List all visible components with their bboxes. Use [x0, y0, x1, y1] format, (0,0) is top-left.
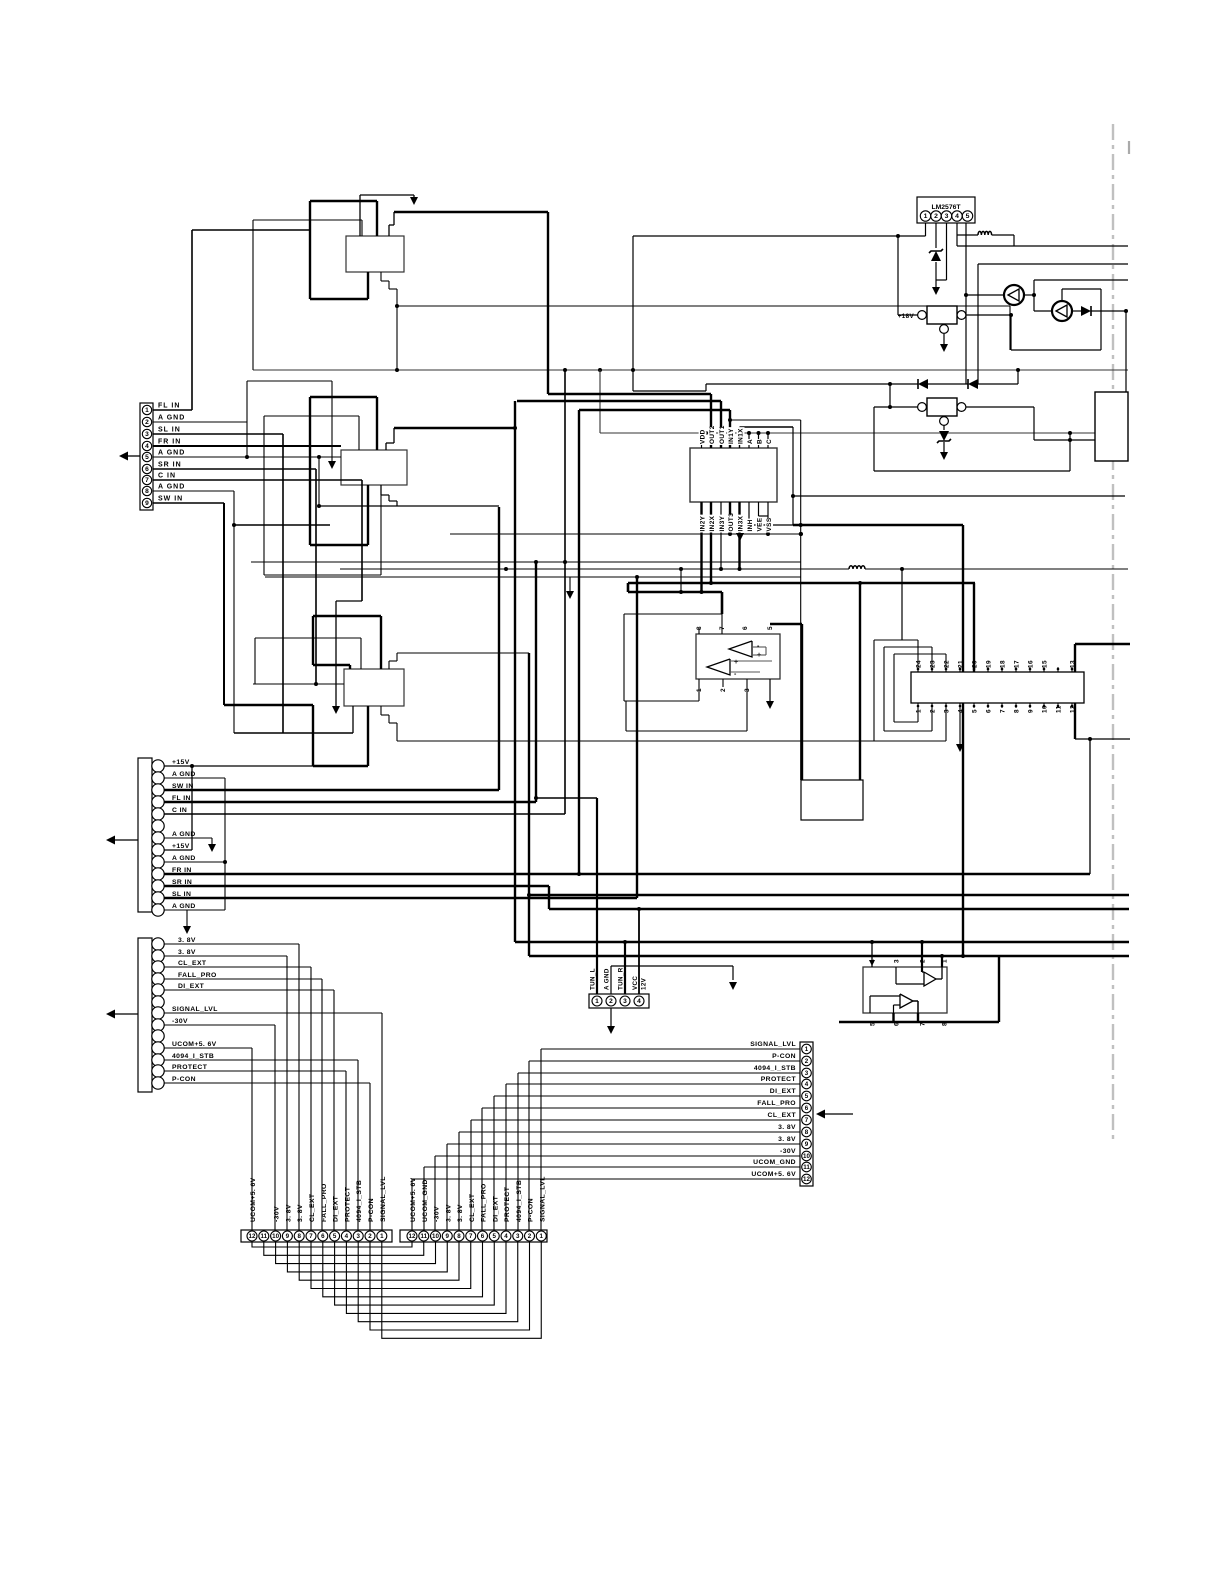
junction — [888, 382, 892, 386]
wire IC4 pin1 up — [941, 956, 943, 967]
svg-text:2: 2 — [368, 1233, 372, 1240]
wire steps bottom A2 — [380, 485, 382, 495]
svg-text:P-CON: P-CON — [172, 1076, 196, 1083]
wire CN1 A GND 5 — [153, 456, 341, 458]
wire C riser — [564, 370, 566, 814]
wire net y562 — [251, 561, 801, 563]
LM2576T pin 5 — [962, 211, 972, 221]
svg-text:SR IN: SR IN — [158, 462, 182, 469]
wire A1 out bold — [394, 211, 548, 213]
wire CN6-CN7 pin 6 — [323, 1242, 483, 1297]
svg-text:21: 21 — [958, 660, 965, 668]
svg-text:10: 10 — [272, 1233, 279, 1240]
IC1 pin IN1X label — [737, 427, 745, 445]
svg-text:FL IN: FL IN — [158, 403, 180, 410]
wire SL riser — [636, 577, 638, 898]
svg-text:5: 5 — [966, 213, 970, 220]
svg-text:12: 12 — [409, 1233, 416, 1240]
IC1 pin C label — [765, 439, 773, 445]
svg-text:+18V: +18V — [898, 313, 915, 320]
CN1 pin 4 — [142, 441, 151, 450]
svg-text:FALL_PRO: FALL_PRO — [321, 1183, 328, 1222]
IC2 internal wires — [752, 646, 766, 648]
wire CN1 SW IN — [153, 502, 224, 504]
CN7 pin 4 — [501, 1231, 511, 1241]
svg-text:8: 8 — [457, 1233, 461, 1240]
arrow down A3 — [332, 706, 340, 714]
CN3 pin 12 — [152, 1065, 164, 1077]
svg-text:8: 8 — [1014, 709, 1021, 713]
ground arrow CN2 — [186, 910, 188, 928]
CN2 pin 12 — [152, 892, 164, 904]
wire CN2 FL IN — [164, 801, 536, 803]
wire FL into A1 — [192, 229, 310, 231]
IC1 pin IN1Y label — [727, 427, 735, 445]
svg-text:8: 8 — [297, 1233, 301, 1240]
wire FL riser — [535, 562, 537, 802]
CN7 pin 10 — [431, 1231, 441, 1241]
wire bold stub A2 — [234, 524, 330, 526]
wire CN2 A GND rail — [164, 777, 225, 779]
IC3 pin 17 stub — [1015, 667, 1017, 672]
svg-text:LM2576T: LM2576T — [931, 204, 961, 211]
arrow left CN2 — [112, 839, 138, 841]
IC1 pin OUT3 label — [727, 515, 735, 533]
wire LM2576 pin1 — [925, 223, 927, 236]
IC IC1 4053 box — [690, 448, 777, 502]
wire CN3 DI_EXT — [164, 989, 334, 991]
svg-text:15: 15 — [1042, 660, 1049, 668]
CN1 pin 2 — [142, 417, 151, 426]
svg-text:DI_EXT: DI_EXT — [333, 1195, 340, 1222]
svg-text:5: 5 — [333, 1233, 337, 1240]
LM2576T pin 1 — [920, 211, 930, 221]
CN3 pin 7 — [152, 1007, 164, 1019]
junction — [1032, 293, 1036, 297]
wire steps bottom-right A1 — [380, 272, 382, 281]
IC1 pin VEE label — [756, 519, 764, 533]
svg-text:A GND: A GND — [604, 968, 611, 990]
svg-text:3. 8V: 3. 8V — [778, 1136, 796, 1143]
CN2 pin 10 — [152, 868, 164, 880]
svg-text:9: 9 — [446, 1233, 450, 1240]
wire thin rect A1 — [253, 219, 362, 221]
wire y895 bold — [529, 894, 1129, 896]
arrow down on net y534 — [736, 533, 744, 541]
wire IC3 pin23-pin2 wrap — [931, 647, 933, 672]
wire CN1 SR IN — [153, 468, 316, 470]
svg-text:2: 2 — [930, 709, 937, 713]
connector CN1 body — [140, 403, 153, 510]
wire A GND into A2 — [246, 422, 248, 457]
svg-text:+: + — [734, 659, 739, 666]
wire CN2 +15V rail — [164, 765, 313, 767]
wire CN5 UCOM_GND — [424, 1166, 800, 1168]
wire IC4 pin3 loop — [895, 967, 897, 984]
CN1 pin 1 — [142, 405, 151, 414]
wire IC3 pin13 elbow — [1074, 644, 1076, 672]
CN7 pin 11 — [419, 1231, 429, 1241]
svg-text:FALL_PRO: FALL_PRO — [757, 1100, 796, 1107]
junction — [896, 234, 900, 238]
wire CN6-CN7 pin 8 — [299, 1242, 459, 1280]
svg-text:TUN_R: TUN_R — [618, 967, 625, 990]
wire bold elbow y525 — [793, 524, 963, 526]
wire CN5 UCOM+5. 6V — [412, 1178, 800, 1180]
CN6 pin 10 — [271, 1231, 281, 1241]
svg-text:P-CON: P-CON — [772, 1053, 796, 1060]
wire CN1 FL IN — [153, 409, 192, 411]
wire bold U A3 — [367, 706, 369, 766]
svg-text:UCOM+5. 6V: UCOM+5. 6V — [410, 1177, 417, 1222]
svg-text:1: 1 — [805, 1046, 809, 1053]
op-amp IC4a — [924, 972, 936, 986]
wire CN5 DI_EXT — [494, 1095, 800, 1097]
connector CN2 body — [138, 758, 152, 912]
svg-text:3: 3 — [945, 213, 949, 220]
junction — [964, 293, 968, 297]
svg-text:4: 4 — [955, 213, 959, 220]
wire CN6-CN7 pin 7 — [311, 1242, 471, 1289]
IC3 pin 23 stub — [931, 667, 933, 672]
svg-text:IN1X: IN1X — [738, 428, 745, 444]
CN2 pin 11 — [152, 880, 164, 892]
svg-text:2: 2 — [528, 1233, 532, 1240]
ground stub mid — [569, 577, 571, 592]
ground IC2 — [769, 679, 771, 702]
svg-text:22: 22 — [944, 660, 951, 668]
wire bold bottom A1 — [310, 298, 368, 300]
CN2 pin 8 — [152, 844, 164, 856]
wire IC3 pin20 bold — [973, 583, 975, 672]
wire SR riser — [548, 886, 550, 909]
arrow left CN1 — [127, 455, 140, 457]
wire CN3 4094_I_STB — [164, 1059, 358, 1061]
svg-text:3: 3 — [623, 998, 627, 1005]
wire bold top A3 — [313, 615, 381, 617]
svg-text:IN3X: IN3X — [738, 515, 745, 531]
IC3 pin 21 stub — [959, 667, 961, 672]
CN5 pin 11 — [802, 1162, 812, 1172]
CN2 pin 1 — [152, 760, 164, 772]
junction — [223, 860, 227, 864]
svg-text:1: 1 — [145, 407, 149, 414]
svg-text:8: 8 — [805, 1129, 809, 1136]
CN4 pin 2 — [606, 996, 616, 1006]
CN7 pin 6 — [478, 1231, 488, 1241]
svg-text:A GND: A GND — [172, 855, 196, 862]
wire CN5 SIGNAL_LVL — [541, 1048, 800, 1050]
CN4 pin 4 — [634, 996, 644, 1006]
wire IN3Y out — [720, 502, 722, 569]
wire steps top-right A3 — [388, 661, 390, 669]
CN1 pin 9 — [142, 498, 151, 507]
LM2576T pin 2 — [931, 211, 941, 221]
svg-text:1: 1 — [916, 709, 923, 713]
wire IC2 rect A — [624, 613, 722, 615]
wire y942 bold — [515, 941, 1129, 943]
junction — [920, 940, 924, 944]
wire CN3 3. 8V — [164, 955, 287, 957]
IC1 pin INH label — [746, 519, 754, 533]
wire net y236 — [633, 235, 926, 237]
amp block A3 box — [344, 669, 404, 706]
wire CN2 A GND 7 — [164, 837, 212, 839]
wire IC2 rect B — [626, 730, 747, 732]
wire LM2576 pin4 — [956, 223, 958, 246]
wire OUT3 out — [729, 502, 731, 534]
junction — [870, 940, 874, 944]
wire CN6-CN7 pin 4 — [346, 1242, 506, 1313]
wire from inductor drop — [901, 569, 903, 640]
junction — [1124, 309, 1128, 313]
svg-text:8: 8 — [145, 488, 149, 495]
IC1 pin IN2Y label — [699, 515, 707, 533]
CN6 pin 1 — [377, 1231, 387, 1241]
svg-text:INH: INH — [747, 519, 754, 531]
CN7 pin 2 — [525, 1231, 535, 1241]
wire y956 bold — [529, 955, 1129, 957]
svg-text:11: 11 — [261, 1233, 268, 1240]
inductor L1 — [978, 231, 992, 235]
ground arrow — [328, 461, 336, 469]
wire after L1 — [992, 234, 1014, 236]
junction — [504, 567, 508, 571]
svg-text:+15V: +15V — [172, 843, 190, 850]
wire CN6-CN7 pin 12 — [252, 1242, 412, 1247]
svg-text:9: 9 — [805, 1141, 809, 1148]
svg-text:9: 9 — [145, 500, 149, 507]
module box — [1095, 392, 1128, 461]
photo-coupler D52 A — [1004, 285, 1024, 305]
wire CN3 P-CON — [164, 1082, 370, 1084]
IC3 pin 24 stub — [917, 667, 919, 672]
svg-text:C IN: C IN — [172, 807, 187, 814]
wire bold bottom A3 — [224, 704, 313, 706]
svg-text:4: 4 — [145, 443, 149, 450]
wire CN2 C IN — [164, 813, 565, 815]
wire CN1 A GND 2 — [153, 421, 247, 423]
CN1 pin 3 — [142, 429, 151, 438]
wire steps top-right A2 — [385, 443, 387, 450]
svg-text:4094_I_STB: 4094_I_STB — [516, 1180, 523, 1222]
wire LM2576 pin2 — [935, 223, 937, 248]
svg-text:12: 12 — [803, 1176, 810, 1183]
svg-text:PROTECT: PROTECT — [172, 1064, 208, 1071]
IC3 pin 6 stub — [987, 703, 989, 708]
CN2 pin 5 — [152, 808, 164, 820]
CN1 pin 7 — [142, 475, 151, 484]
IC3 pin 7 stub — [1001, 703, 1003, 708]
wire IC4 b in- — [894, 1004, 901, 1006]
wire INH tie — [748, 502, 750, 525]
CN6 pin 4 — [341, 1231, 351, 1241]
wire CN3 CL_EXT — [164, 966, 311, 968]
svg-text:2: 2 — [609, 998, 613, 1005]
wire net y496 — [793, 495, 1125, 497]
svg-text:3: 3 — [356, 1233, 360, 1240]
wire IC4 b in+ — [870, 995, 900, 997]
svg-text:DI_EXT: DI_EXT — [770, 1088, 797, 1095]
wire gnd link — [680, 569, 682, 592]
CN1 pin 6 — [142, 464, 151, 473]
wire CN5 3. 8V — [459, 1131, 800, 1133]
svg-text:11: 11 — [420, 1233, 427, 1240]
svg-text:UCOM_GND: UCOM_GND — [753, 1159, 796, 1166]
wire pin5 bold net — [628, 582, 975, 585]
wire diode drop — [889, 384, 891, 407]
wire IC4 bold bottom — [839, 1021, 999, 1023]
junction — [534, 560, 538, 564]
Q1 pin circles — [918, 311, 927, 320]
svg-text:7: 7 — [805, 1117, 809, 1124]
connector CN7 body — [400, 1230, 547, 1242]
wire steps bottom-right A3 — [380, 706, 382, 715]
IC3 pin 2 stub — [931, 703, 933, 708]
svg-text:B: B — [757, 439, 764, 444]
IC1 pin OUT2 label — [708, 427, 716, 445]
junction — [1068, 438, 1072, 442]
wire SW riser — [498, 507, 500, 790]
CN4 pin 1 — [592, 996, 602, 1006]
CN5 pin 12 — [802, 1174, 812, 1184]
svg-text:UCOM+5. 6V: UCOM+5. 6V — [172, 1041, 217, 1048]
svg-text:SL IN: SL IN — [158, 427, 181, 434]
CN6 pin 5 — [330, 1231, 340, 1241]
svg-text:OUT2: OUT2 — [709, 425, 716, 444]
IC1 pin IN3X label — [737, 515, 745, 533]
wire CN5 4094_I_STB — [518, 1072, 800, 1074]
CN6 pin 7 — [306, 1231, 316, 1241]
wire LM2576 pin3 — [946, 223, 948, 280]
transistor Q1 body — [927, 306, 957, 324]
svg-text:3. 8V: 3. 8V — [297, 1204, 304, 1222]
CN3 pin 10 — [152, 1042, 164, 1054]
svg-text:TUN_L: TUN_L — [590, 968, 597, 990]
wire TUN_L — [596, 798, 598, 994]
wire opto1 out — [1024, 294, 1034, 296]
wire CN2 SW IN — [164, 789, 499, 791]
svg-text:2: 2 — [720, 688, 727, 692]
svg-text:A GND: A GND — [158, 484, 185, 491]
CN3 pin 11 — [152, 1054, 164, 1066]
svg-text:11: 11 — [803, 1164, 810, 1171]
junction — [527, 893, 531, 897]
svg-text:IN2Y: IN2Y — [700, 515, 707, 531]
svg-text:4094_I_STB: 4094_I_STB — [172, 1053, 214, 1060]
wire CN3 UCOM+5. 6V — [164, 1047, 252, 1049]
IC IC4 box — [863, 967, 947, 1013]
ground Q1 — [943, 334, 945, 346]
wire between diodes — [928, 383, 968, 385]
wire IN2X out — [710, 502, 712, 583]
wire CN1 A GND 8 — [153, 490, 234, 492]
diode D53 — [1072, 310, 1081, 312]
wire CN2 SR IN — [164, 885, 549, 887]
wire SL into A3 — [352, 706, 354, 733]
IC3 pin 1 stub — [917, 703, 919, 708]
CN5 pin 2 — [802, 1056, 812, 1066]
CN2 pin 13 — [152, 904, 164, 916]
IC1 pin A label — [746, 439, 754, 445]
svg-text:SIGNAL_LVL: SIGNAL_LVL — [380, 1176, 387, 1222]
ground arrow — [935, 280, 937, 287]
svg-text:-30V: -30V — [172, 1018, 188, 1025]
wire OUT2 in — [710, 394, 712, 448]
junction — [513, 426, 517, 430]
svg-text:A GND: A GND — [158, 415, 185, 422]
IC1 pin OUT1 label — [718, 427, 726, 445]
wire net y569 — [340, 568, 1128, 570]
wire to module — [1034, 439, 1095, 441]
svg-text:3: 3 — [805, 1070, 809, 1077]
svg-text:UCOM+5. 6V: UCOM+5. 6V — [751, 1171, 796, 1178]
wire net y264 — [977, 264, 979, 384]
connector CN4 body — [589, 994, 649, 1008]
wire LM2576 pin5 — [965, 223, 967, 384]
svg-text:1: 1 — [380, 1233, 384, 1240]
wire bold out A2 — [394, 427, 515, 429]
CN5 pin 1 — [802, 1044, 812, 1054]
svg-text:18: 18 — [1000, 660, 1007, 668]
svg-text:7: 7 — [469, 1233, 473, 1240]
svg-text:IN1Y: IN1Y — [728, 428, 735, 444]
svg-text:2: 2 — [805, 1058, 809, 1065]
svg-text:C IN: C IN — [158, 473, 176, 480]
wire IC2 pin2 stub — [722, 679, 724, 687]
svg-text:4: 4 — [504, 1233, 508, 1240]
svg-text:DI_EXT: DI_EXT — [178, 983, 205, 990]
ground arrow Q2 — [940, 452, 948, 460]
CN3 pin 8 — [152, 1019, 164, 1031]
wire bold top A1 — [310, 200, 377, 202]
IC IC2 box — [696, 634, 780, 679]
svg-text:10: 10 — [803, 1153, 810, 1160]
svg-text:CL_EXT: CL_EXT — [178, 960, 207, 967]
wire net y534 — [450, 533, 801, 535]
svg-text:UCOM+5. 6V: UCOM+5. 6V — [250, 1177, 257, 1222]
wire thin rect A3 — [255, 637, 361, 639]
arrow down A1 — [410, 197, 418, 205]
wire CN5 FALL_PRO — [482, 1107, 800, 1109]
wire Q1 out — [966, 314, 1011, 316]
wire CN5 PROTECT — [506, 1083, 800, 1085]
wire ABC tie — [748, 433, 750, 448]
CN3 pin 5 — [152, 984, 164, 996]
wire IC2 pin8 stub — [698, 628, 700, 634]
CN5 pin 10 — [802, 1151, 812, 1161]
svg-text:-30V: -30V — [274, 1206, 281, 1222]
Q2 pin circles — [918, 403, 927, 412]
svg-text:-30V: -30V — [780, 1148, 796, 1155]
svg-text:A: A — [747, 439, 754, 444]
wire IN1Y in — [729, 410, 731, 448]
CN2 pin 9 — [152, 856, 164, 868]
CN5 pin 8 — [802, 1127, 812, 1137]
svg-text:SIGNAL_LVL: SIGNAL_LVL — [750, 1041, 796, 1048]
wire OUT1 in — [720, 401, 722, 448]
svg-text:FALL_PRO: FALL_PRO — [481, 1183, 488, 1222]
IC3 pin 14 stub — [1057, 667, 1059, 672]
wire y909 bold — [549, 908, 1129, 910]
svg-text:3: 3 — [145, 431, 149, 438]
IC3 pin 9 stub — [1029, 703, 1031, 708]
junction — [700, 590, 704, 594]
svg-text:SIGNAL_LVL: SIGNAL_LVL — [172, 1006, 218, 1013]
junction — [888, 405, 892, 409]
wire right drop — [1125, 311, 1127, 392]
svg-text:P-CON: P-CON — [528, 1198, 535, 1222]
